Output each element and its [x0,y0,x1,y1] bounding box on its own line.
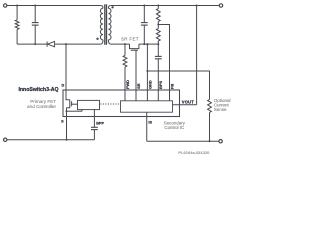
wire GND pin [146,44,148,101]
label PI-6164a-031320 [178,150,210,155]
transformer T1 secondary winding [108,6,111,45]
svg-text:VOUT: VOUT [182,100,194,105]
svg-text:and Controller: and Controller [27,104,56,109]
node BPS/divider junction [157,43,159,45]
label pin BPS [158,80,163,88]
node internal source bus [66,110,68,112]
wire secondary return rail [147,140,219,142]
op-amp U1 InnoSwitch3-AQ outline [63,90,180,117]
capacitor clamp C [32,6,39,45]
label pin FB [169,84,174,89]
terminal input+ (top-left) [3,4,6,7]
wire FET source to S pin [66,108,68,140]
wire FB tap to FB pin [158,25,169,101]
label InnoSwitch3-AQ [18,87,58,93]
label VOUT [182,100,194,105]
label pin BPP [96,121,104,125]
svg-text:FB: FB [169,84,174,89]
wire top-left rail [7,5,101,7]
node FWD tap [124,43,126,45]
wire VOUT pin [173,104,197,106]
wire VOUT drop [196,6,198,105]
svg-text:IS: IS [148,120,152,124]
node GND pin junction [146,43,148,45]
node output cap junction [143,43,145,45]
capacitor BPP [91,109,98,140]
label pin FWD [125,80,130,89]
wire drain D pin [66,44,70,100]
node secondary phase dot [111,6,113,8]
node clamp resistor tap [16,5,18,7]
resistor FWD series R [123,44,127,101]
svg-text:InnoSwitch3-AQ: InnoSwitch3-AQ [18,87,58,93]
svg-text:SR FET: SR FET [121,36,139,41]
label Primary FET and Controller [27,99,56,109]
wire secondary return (SR node) [111,43,130,45]
transformer T1 primary winding [100,6,103,45]
transformer T1 core [105,4,107,45]
terminal output+ (top-right) [219,4,222,7]
wire IS pin [146,112,148,141]
node primary phase dot [96,38,98,40]
svg-text:BPP: BPP [96,121,104,125]
capacitor output C [141,6,148,45]
terminal output- (bottom-right) [219,140,222,143]
op-amp secondary controller block [121,101,173,112]
label SR FET [121,36,139,41]
svg-text:Sense: Sense [214,107,227,112]
node FB tap [157,24,159,26]
svg-text:SR: SR [136,83,141,89]
resistor clamp R [15,6,19,45]
diode clamp blocking diode [47,41,55,46]
label pin GND [147,80,152,89]
node sense resistor return junction [209,140,211,142]
svg-text:PI-6164a-031320: PI-6164a-031320 [178,150,210,155]
node S pin return junction [66,139,68,141]
node clamp/diode junction [34,43,36,45]
resistor FB upper [156,6,160,25]
label pin D [62,84,65,88]
svg-text:S: S [61,120,64,124]
label optional current sense [214,98,231,112]
svg-text:GND: GND [147,80,152,89]
svg-text:FWD: FWD [125,80,130,89]
capacitor BPS [155,44,162,101]
wire SR source to ground net [139,43,158,45]
op-amp primary controller block [78,100,100,109]
wire clamp bottom [17,43,47,45]
wire top-right output rail [111,5,220,7]
wire internal source bus [67,110,83,112]
label Secondary Control IC [164,121,186,130]
wire diode to drain node [55,43,101,45]
svg-text:Control IC: Control IC [164,125,184,130]
label pin SR [136,83,141,89]
wire SR gate to SR pin [135,50,137,101]
terminal input- (bottom-left) [3,138,6,141]
label pin IS [148,120,152,124]
wire GND bus to sense resistor [147,71,209,100]
node output cap top [143,5,145,7]
node GND bus junction [146,70,148,72]
node VOUT rail tap [196,5,198,7]
wire dotted link primary-secondary [100,103,119,105]
wire bottom-left rail [7,139,95,141]
label pin S [61,120,64,124]
transistor primary FET [67,100,78,108]
resistor FB lower [156,25,160,45]
svg-text:D: D [62,84,65,88]
node drain junction [65,43,67,45]
resistor optional current sense [208,100,212,142]
transistor SR FET [130,44,139,50]
svg-text:BPS: BPS [158,80,163,88]
node clamp capacitor tap [34,5,36,7]
node FB divider top [157,5,159,7]
